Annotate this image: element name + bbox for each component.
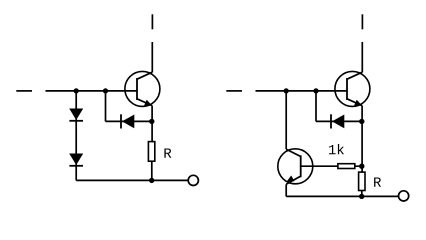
resistor R1 xyxy=(148,142,154,162)
wire: right collector lead xyxy=(361,42,363,72)
wire: left collector lead xyxy=(151,42,153,72)
wire: diode chain vertical xyxy=(75,91,77,180)
wire: left base rail dash xyxy=(16,90,32,92)
wire: right supply dash (top) xyxy=(361,14,363,29)
wire: resistor to ground rail xyxy=(151,161,153,180)
transistor Q2 xyxy=(335,71,370,106)
node: emitter-diode junction xyxy=(149,119,154,124)
wire: clamp diode line xyxy=(106,120,153,122)
wire: right emitter vertical xyxy=(361,106,363,173)
node: right rail junction at base branch xyxy=(313,88,318,93)
terminal: right output xyxy=(399,191,409,201)
node: left bottom junction xyxy=(149,178,154,183)
resistor 1k xyxy=(338,164,355,169)
label R (right) xyxy=(374,177,381,186)
wire: base branch drop xyxy=(105,91,107,122)
node: left rail junction at diode chain xyxy=(74,88,79,93)
wire: emitter to resistor xyxy=(151,106,153,142)
wire: Q3 base line xyxy=(301,165,362,167)
wire: right bottom rail xyxy=(286,195,398,197)
node: base resistor junction xyxy=(359,164,364,169)
diode D3 xyxy=(121,114,134,128)
wire: right base branch drop xyxy=(315,91,317,122)
label 1k xyxy=(329,145,336,154)
node: right rail junction at Q3 collector xyxy=(284,88,289,93)
wire: left bottom rail xyxy=(76,179,188,181)
terminal: left output xyxy=(188,175,198,185)
diode D1 xyxy=(69,109,83,121)
transistor Q1 xyxy=(125,71,160,106)
diode D4 xyxy=(331,114,344,128)
node: left rail junction at base branch xyxy=(103,88,108,93)
wire: Q3 collector drop xyxy=(285,91,287,149)
wire: Q3 emitter drop xyxy=(285,184,287,196)
label R (left) xyxy=(164,148,171,157)
node: right bottom junction xyxy=(359,194,364,199)
node: right emitter-diode junction xyxy=(359,119,364,124)
wire: left base rail xyxy=(46,90,138,92)
transistor Q3 xyxy=(278,149,313,185)
wire: right base rail xyxy=(256,90,348,92)
wire: right clamp diode line xyxy=(316,120,362,122)
resistor R2 xyxy=(359,172,365,190)
wire: right base rail dash xyxy=(226,90,242,92)
wire: left supply dash (top) xyxy=(151,14,153,29)
wire: right resistor to bottom rail xyxy=(361,191,363,197)
diode D2 xyxy=(69,154,83,166)
